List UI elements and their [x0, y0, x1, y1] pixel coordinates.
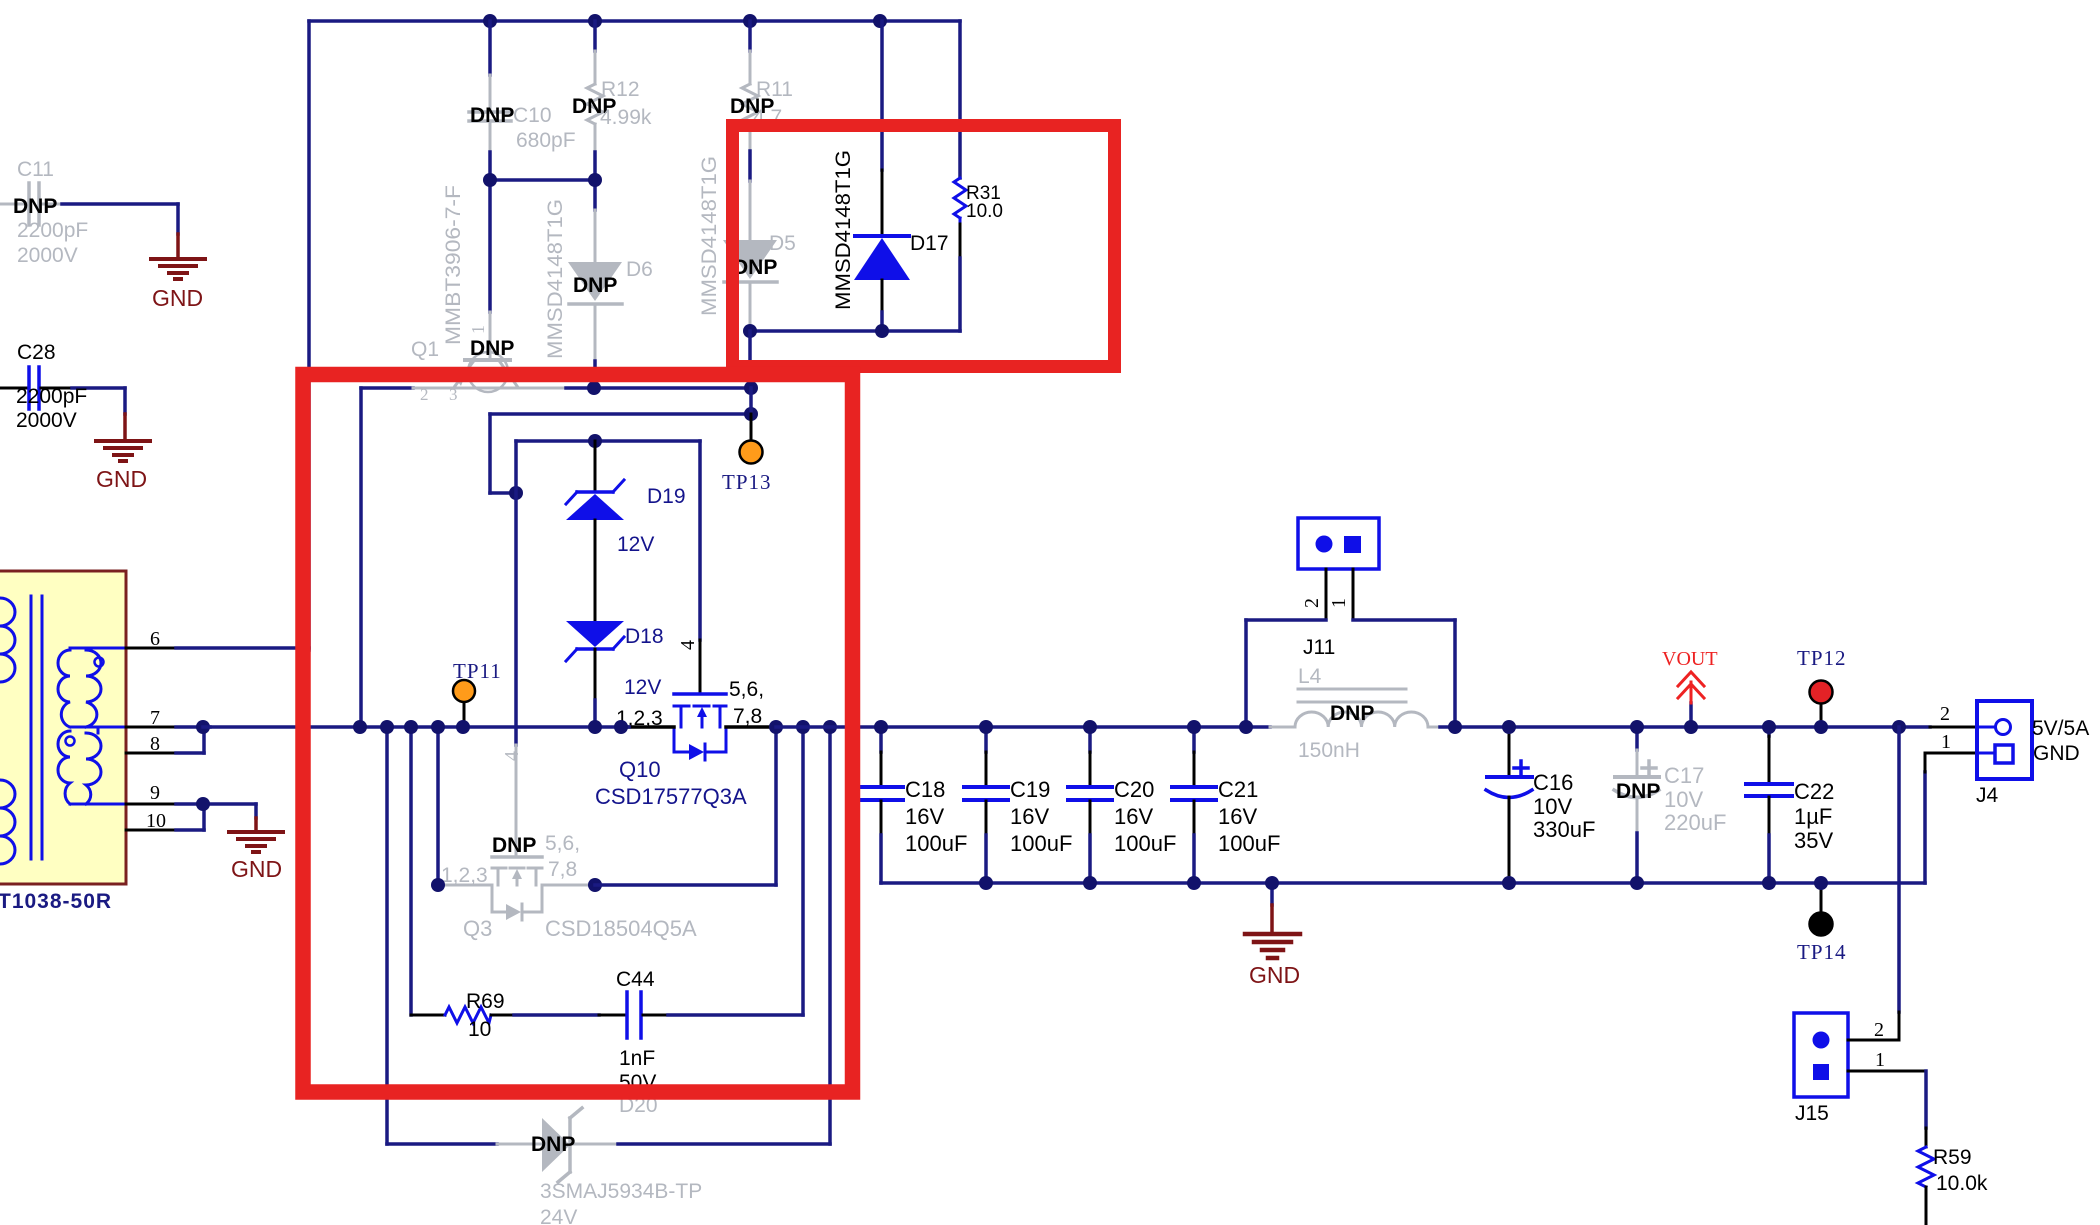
wire pin8 up to pin7 node — [176, 727, 204, 753]
svg-text:DNP: DNP — [1616, 780, 1660, 803]
annotation red box 2 (snubber/clamp) — [303, 375, 853, 1093]
svg-text:5,6,: 5,6, — [729, 678, 764, 701]
svg-text:3SMAJ5934B-TP: 3SMAJ5934B-TP — [540, 1180, 702, 1203]
resistor R59 10.0k — [1918, 1071, 1988, 1225]
wire Q3 drain drop from bus — [436, 727, 440, 885]
wire pin9 to gnd node — [176, 802, 256, 806]
wire D5 column down to wire1 — [748, 331, 752, 388]
wire pin6 to hidden corner — [176, 646, 309, 650]
svg-text:MMSD4148T1G: MMSD4148T1G — [832, 150, 855, 310]
wire left vertical from top rail down to red box — [307, 21, 311, 650]
wire3 horizontal above D19 — [516, 439, 700, 443]
svg-text:4.99k: 4.99k — [600, 106, 652, 129]
diode D5 MMSD4148T1G (DNP) — [698, 156, 796, 331]
svg-text:MMSD4148T1G: MMSD4148T1G — [698, 156, 721, 316]
test point TP13 — [722, 414, 772, 494]
svg-text:7,8: 7,8 — [733, 705, 762, 728]
wire2 drop and jog to gate column — [490, 414, 516, 493]
svg-text:C21: C21 — [1218, 777, 1258, 802]
svg-text:100uF: 100uF — [1218, 831, 1280, 856]
svg-text:TP13: TP13 — [722, 470, 772, 494]
node VOUT power arrow — [1662, 648, 1718, 727]
wire R69/C44 left drop — [409, 727, 413, 1015]
wire D20 left drop — [385, 727, 389, 1144]
wire2 horizontal — [490, 412, 751, 416]
node junction dots on top rail — [483, 14, 887, 28]
svg-text:1: 1 — [468, 325, 488, 334]
wire C44 right side up to bus — [668, 727, 803, 1015]
svg-text:DNP: DNP — [470, 104, 514, 127]
wire pin7 to bus — [176, 725, 210, 729]
svg-text:DNP: DNP — [733, 256, 777, 279]
ground symbol for transformer secondary — [229, 818, 283, 882]
svg-text:GND: GND — [96, 466, 147, 492]
svg-text:16V: 16V — [1218, 804, 1257, 829]
node dots on bus (left half) — [353, 720, 837, 734]
capacitor C17 220uF (DNP, polarized) — [1614, 727, 1726, 883]
svg-text:GND: GND — [231, 856, 282, 882]
wire bottom of D17 box — [750, 329, 960, 333]
svg-text:35V: 35V — [1794, 828, 1833, 853]
svg-text:220uF: 220uF — [1664, 810, 1726, 835]
svg-text:10: 10 — [468, 1018, 491, 1041]
capacitor C44 1nF 50V — [599, 968, 668, 1094]
svg-text:2: 2 — [1874, 1019, 1884, 1041]
svg-text:TP14: TP14 — [1797, 940, 1847, 964]
svg-text:GND: GND — [1249, 962, 1300, 988]
Q10 leads (black) — [629, 725, 776, 729]
svg-text:2: 2 — [1301, 598, 1323, 608]
connector J11 — [1298, 518, 1379, 659]
capacitor C16 330uF (polarized) — [1486, 727, 1595, 883]
svg-text:DNP: DNP — [492, 834, 536, 857]
svg-text:7,8: 7,8 — [548, 858, 577, 881]
wire Q3 source return — [595, 727, 776, 885]
svg-text:C17: C17 — [1664, 763, 1704, 788]
svg-text:10V: 10V — [1533, 794, 1572, 819]
svg-text:1: 1 — [1875, 1049, 1885, 1071]
svg-text:680pF: 680pF — [516, 129, 576, 152]
svg-text:D18: D18 — [625, 625, 664, 648]
capacitor C21 16V 100uF — [1172, 727, 1280, 883]
svg-text:J4: J4 — [1976, 784, 1999, 807]
svg-text:R69: R69 — [466, 990, 505, 1013]
wire gnd drop — [254, 804, 258, 818]
svg-text:10: 10 — [146, 810, 166, 832]
svg-text:12V: 12V — [617, 533, 654, 556]
svg-text:D5: D5 — [769, 232, 796, 255]
svg-text:TP12: TP12 — [1797, 646, 1847, 670]
svg-text:C10: C10 — [513, 104, 552, 127]
svg-text:6: 6 — [150, 628, 160, 650]
svg-text:TP11: TP11 — [453, 659, 502, 683]
transformer primary winding (left, cut off) — [0, 598, 15, 864]
ground symbol for C28 — [96, 414, 150, 492]
wire main bus left part — [203, 725, 629, 729]
svg-text:MMSD4148T1G: MMSD4148T1G — [544, 199, 567, 359]
svg-text:100uF: 100uF — [1010, 831, 1072, 856]
svg-text:1µF: 1µF — [1794, 804, 1832, 829]
resistor R69 10 — [411, 990, 514, 1041]
svg-text:330uF: 330uF — [1533, 817, 1595, 842]
transformer T1038-50R body — [0, 571, 126, 884]
transistor Q10 CSD17577Q3A — [674, 694, 726, 760]
svg-text:VOUT: VOUT — [1662, 648, 1718, 670]
svg-text:C18: C18 — [905, 777, 945, 802]
svg-text:C11: C11 — [17, 158, 54, 181]
svg-text:C19: C19 — [1010, 777, 1050, 802]
svg-text:C28: C28 — [17, 341, 56, 364]
svg-text:8: 8 — [150, 733, 160, 755]
wire VOUT drop to J15 — [1897, 727, 1901, 1040]
diode D17 MMSD4148T1G — [832, 21, 949, 331]
svg-text:L4: L4 — [1298, 665, 1322, 688]
capacitor C28 — [0, 341, 125, 432]
wire gate column x516 — [514, 441, 518, 745]
capacitor C10 (DNP) — [469, 21, 576, 152]
svg-text:4: 4 — [501, 751, 523, 761]
svg-text:7: 7 — [150, 707, 160, 729]
Q10 labels — [616, 678, 764, 730]
capacitor C18 16V 100uF — [859, 727, 967, 883]
transistor Q1 MMBT3906 (DNP) — [411, 185, 517, 404]
wire R69 to C44 — [514, 1013, 599, 1017]
wire D20 right side up to bus — [618, 727, 830, 1144]
svg-text:MMBT3906-7-F: MMBT3906-7-F — [442, 185, 465, 345]
capacitor C22 1uF 35V — [1746, 727, 1834, 883]
svg-text:Q10: Q10 — [619, 757, 661, 782]
svg-text:2200pF: 2200pF — [16, 385, 87, 408]
test point TP14 — [1797, 883, 1847, 964]
svg-text:GND: GND — [2033, 742, 2080, 765]
wire1 horizontal inside box — [361, 386, 413, 390]
capacitor C20 16V 100uF — [1068, 727, 1176, 883]
svg-text:DNP: DNP — [1330, 702, 1374, 725]
wire R11 to D5 — [748, 151, 752, 181]
test point TP12 — [1797, 646, 1847, 727]
svg-text:T1038-50R: T1038-50R — [0, 890, 112, 913]
svg-text:5,6,: 5,6, — [545, 832, 580, 855]
transformer secondary winding B (pins 9-10) — [58, 727, 126, 804]
svg-text:5V/5A: 5V/5A — [2032, 717, 2089, 740]
pin 10 — [126, 810, 176, 832]
resistor R31 10.0 — [954, 21, 1003, 331]
svg-text:16V: 16V — [1114, 804, 1153, 829]
svg-text:10.0: 10.0 — [966, 201, 1003, 222]
svg-text:D6: D6 — [626, 258, 653, 281]
svg-text:DNP: DNP — [470, 337, 514, 360]
svg-text:Q3: Q3 — [463, 916, 492, 941]
connector J4 — [1925, 701, 2089, 883]
diode D20 3SMAJ5934B-TP (DNP) — [387, 1094, 702, 1225]
svg-text:100uF: 100uF — [905, 831, 967, 856]
svg-text:J15: J15 — [1795, 1102, 1829, 1125]
wire R12 to junction — [593, 152, 597, 210]
svg-text:DNP: DNP — [573, 274, 617, 297]
svg-text:10.0k: 10.0k — [1936, 1172, 1988, 1195]
resistor R12 (DNP) — [572, 21, 652, 152]
svg-text:C16: C16 — [1533, 770, 1573, 795]
wire top rail — [309, 19, 960, 23]
svg-text:2000V: 2000V — [16, 409, 77, 432]
resistor R11 (DNP) — [730, 21, 793, 151]
wire vertical x361 down to bus — [359, 388, 363, 727]
svg-text:DNP: DNP — [531, 1133, 575, 1156]
svg-text:2000V: 2000V — [17, 244, 78, 267]
capacitor C11 (DNP) — [0, 158, 178, 267]
transistor Q3 CSD18504Q5A (DNP) — [442, 857, 592, 920]
wire pin10 up to pin9 node — [176, 804, 204, 830]
svg-text:1: 1 — [1941, 731, 1951, 753]
ground symbol below cap bank — [1245, 883, 1300, 988]
svg-text:D19: D19 — [647, 485, 686, 508]
svg-text:1nF: 1nF — [619, 1047, 655, 1070]
wire bottom rail — [881, 881, 1925, 885]
zener diode D19 12V — [566, 441, 686, 621]
svg-text:16V: 16V — [1010, 804, 1049, 829]
svg-text:2200pF: 2200pF — [17, 219, 88, 242]
connector J15 — [1794, 1013, 1926, 1125]
wire J11 bypass loop — [1246, 620, 1455, 727]
svg-text:C20: C20 — [1114, 777, 1154, 802]
node dots on connecting wire — [483, 173, 602, 187]
wire main bus middle part — [776, 725, 1246, 729]
node dots on bottom rail — [979, 876, 1828, 890]
wire C10 column to junction — [488, 152, 492, 312]
svg-text:24V: 24V — [540, 1206, 577, 1225]
svg-text:4: 4 — [677, 640, 699, 650]
svg-text:GND: GND — [152, 285, 203, 311]
svg-text:9: 9 — [150, 782, 160, 804]
svg-text:CSD17577Q3A: CSD17577Q3A — [595, 784, 747, 809]
node dots on bus (right half) — [874, 720, 1906, 734]
pin 7 — [126, 707, 176, 729]
svg-text:12V: 12V — [624, 676, 661, 699]
node pin9/10 junction — [196, 797, 210, 811]
svg-text:16V: 16V — [905, 804, 944, 829]
svg-text:2: 2 — [1940, 703, 1950, 725]
svg-text:D17: D17 — [910, 232, 949, 255]
svg-text:R59: R59 — [1933, 1146, 1972, 1169]
zener diode D18 12V — [566, 621, 664, 727]
svg-text:J11: J11 — [1303, 636, 1335, 659]
wire main bus right part — [1455, 725, 1930, 729]
test point TP11 — [453, 659, 502, 727]
svg-text:10V: 10V — [1664, 787, 1703, 812]
svg-text:Q1: Q1 — [411, 338, 439, 361]
capacitor C19 16V 100uF — [964, 727, 1072, 883]
wire connecting C10/R12 columns — [490, 178, 595, 182]
transformer secondary winding A (pins 6-7) — [58, 648, 126, 727]
svg-text:150nH: 150nH — [1298, 739, 1360, 762]
inductor L4 150nH (DNP) — [1246, 665, 1455, 762]
svg-text:C44: C44 — [616, 968, 655, 991]
svg-text:100uF: 100uF — [1114, 831, 1176, 856]
svg-text:1,2,3: 1,2,3 — [441, 864, 488, 887]
wire vertical x751 wire1-wire2 — [749, 388, 753, 414]
svg-text:C22: C22 — [1794, 779, 1834, 804]
node pin7/8 junction — [196, 720, 210, 734]
svg-text:CSD18504Q5A: CSD18504Q5A — [545, 916, 697, 941]
ground symbol for C11 — [151, 234, 205, 311]
annotation red box 1 (D17/R31) — [733, 126, 1115, 367]
pin 6 — [126, 628, 176, 650]
diode D6 MMSD4148T1G (DNP) — [544, 199, 653, 388]
svg-text:1: 1 — [1328, 598, 1350, 608]
pin 9 — [126, 782, 176, 804]
pin 8 — [126, 733, 176, 755]
svg-text:DNP: DNP — [13, 195, 57, 218]
wire Q10 gate drop — [698, 441, 702, 640]
